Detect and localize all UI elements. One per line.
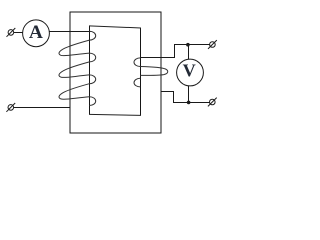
secondary winding S bottom lead wire xyxy=(161,92,210,103)
junction node top xyxy=(186,43,190,47)
primary winding P turn 2 bump xyxy=(89,53,95,62)
terminal X3 (top right) xyxy=(208,40,217,49)
wire: terminal X2 to enclosure xyxy=(14,107,70,109)
svg-text:V: V xyxy=(183,61,196,81)
wire: ammeter to primary winding xyxy=(49,31,90,33)
primary winding P turn 2 loop xyxy=(59,62,89,78)
terminal X2 (bottom left) xyxy=(6,103,15,112)
secondary winding S turn 2 bump xyxy=(134,78,140,87)
transformer core bottom edge xyxy=(89,114,141,115)
secondary winding S top lead wire xyxy=(141,45,210,58)
junction node bottom xyxy=(187,101,191,105)
terminal X1 (top left) xyxy=(7,28,16,37)
terminal X4 (bottom right) xyxy=(208,98,217,107)
primary winding P turn 3 loop xyxy=(59,84,89,100)
secondary winding S turn 1 bump xyxy=(134,58,140,67)
svg-text:A: A xyxy=(29,22,43,43)
primary winding P turn 3 bump xyxy=(89,75,95,84)
wire: voltmeter to bottom junction xyxy=(188,86,190,102)
transformer core top edge xyxy=(89,26,141,28)
primary winding P turn 1 bump xyxy=(89,31,95,40)
wire: top junction to voltmeter xyxy=(188,45,190,60)
transformer outer enclosure box xyxy=(70,12,161,133)
transformer core right edge xyxy=(140,28,142,115)
ammeter A1 circle xyxy=(23,20,50,47)
transformer core left edge xyxy=(89,26,91,115)
wire: terminal X1 to ammeter xyxy=(14,32,23,34)
primary winding P turn 4 bump xyxy=(89,97,95,106)
primary winding P turn 1 loop xyxy=(59,40,89,56)
secondary winding S turn 1 loop xyxy=(140,67,167,76)
voltmeter V1 circle xyxy=(177,59,204,86)
